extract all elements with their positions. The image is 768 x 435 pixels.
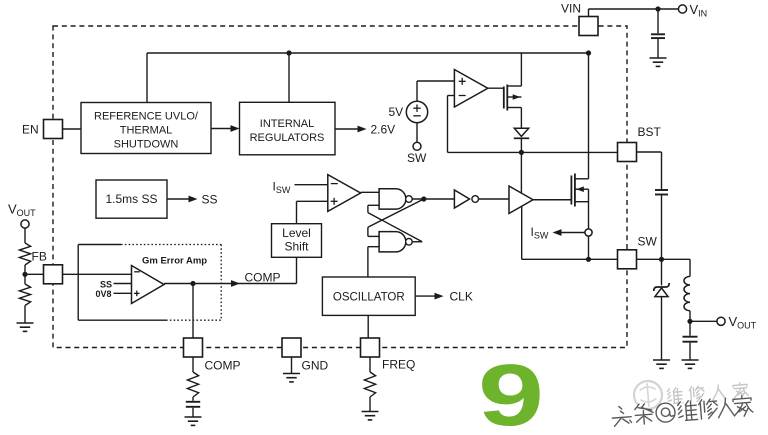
wire EN to reference block xyxy=(63,128,82,130)
block INTERNAL REGULATORS xyxy=(240,102,336,155)
terminal current sense tap circle xyxy=(585,229,592,236)
wire SW pad to output stage xyxy=(637,258,691,260)
gate U4 NAND latch bottom xyxy=(379,232,406,252)
node VIN rail junction xyxy=(586,50,591,55)
wire latch output to inverter xyxy=(412,198,454,200)
node SW diode junction xyxy=(659,257,664,262)
terminal SW sense circle xyxy=(413,142,421,150)
capacitor C1 input xyxy=(651,33,665,35)
wire driver return to SW rail xyxy=(521,206,523,259)
wire 5V to op-amp noninverting input xyxy=(416,81,418,101)
svg-text:COMP: COMP xyxy=(205,358,241,372)
op-amp U7 Gm error amplifier xyxy=(132,266,165,304)
svg-text:SW: SW xyxy=(638,234,658,248)
wire inductor to VOUT node xyxy=(689,311,691,322)
wire bootstrap cap to SW node xyxy=(661,196,663,260)
wire oscillator clock to latch xyxy=(368,246,379,248)
svg-text:SS: SS xyxy=(202,192,218,206)
wire input cap to ground xyxy=(657,39,659,57)
IC boundary dashed box xyxy=(53,26,627,348)
wire error amp output COMP xyxy=(164,283,297,285)
wire COMP pad to R3 xyxy=(192,357,194,372)
ground GND pad xyxy=(283,373,300,375)
svg-text:5V: 5V xyxy=(389,105,404,119)
node rail-regulators junction xyxy=(286,50,291,55)
terminal VOUT feedback circle xyxy=(21,220,29,228)
svg-text:OSCILLATOR: OSCILLATOR xyxy=(333,291,405,303)
svg-text:Gm Error Amp: Gm Error Amp xyxy=(142,256,207,267)
pin COMP pad xyxy=(184,338,203,357)
wire 5V to SW sense terminal xyxy=(416,123,418,143)
wire ISW to comparator inverting input xyxy=(295,184,328,186)
svg-text:GND: GND xyxy=(302,358,329,372)
svg-text:VIN: VIN xyxy=(561,1,581,15)
svg-text:COMP: COMP xyxy=(245,270,281,284)
ground compensation xyxy=(185,416,202,418)
svg-text:9: 9 xyxy=(478,347,544,435)
diode D2 schottky catch xyxy=(654,283,669,291)
wire VOUT node to output cap xyxy=(689,321,691,335)
wire output cap to ground xyxy=(689,343,691,360)
buffer U6 gate driver xyxy=(509,186,533,214)
svg-text:SHUTDOWN: SHUTDOWN xyxy=(114,138,179,150)
svg-text:2.6V: 2.6V xyxy=(371,122,396,136)
wire BST rail xyxy=(448,151,618,153)
wire SS output arrow xyxy=(167,198,194,200)
svg-text:Level: Level xyxy=(282,226,311,240)
watermark logo xyxy=(633,380,663,410)
wire schottky anode to ground xyxy=(661,297,663,360)
wire GND pad to ground xyxy=(291,357,293,373)
svg-text:SS: SS xyxy=(100,279,112,289)
wire level shift to comparator noninverting input xyxy=(297,200,328,202)
node FB divider junction xyxy=(22,272,27,277)
wire FB to error amp inverting input xyxy=(63,273,132,275)
wire CLK output arrow xyxy=(415,295,440,297)
node VOUT junction xyxy=(687,319,692,324)
wire cross-couple top output to bottom input xyxy=(368,199,424,227)
watermark ghost text xyxy=(667,382,749,404)
resistor R4 frequency set xyxy=(364,372,375,397)
svg-text:FB: FB xyxy=(32,249,47,263)
wire R3 to C2 xyxy=(192,397,194,401)
bubble U4 output xyxy=(406,238,413,245)
wire oscillator to FREQ pad xyxy=(367,315,369,338)
wire C2 to ground xyxy=(192,408,194,417)
Gm error amp block boundary xyxy=(78,245,221,321)
pin SW pad xyxy=(618,250,637,269)
terminal VIN input circle xyxy=(678,5,686,13)
svg-text:Shift: Shift xyxy=(284,240,309,254)
wire R2 to ground xyxy=(24,306,26,323)
wire op-amp feedback from BST rail xyxy=(448,95,455,97)
resistor R1 feedback top xyxy=(19,243,30,265)
wire COMP to pad xyxy=(192,284,194,339)
wire 2.6V output arrow xyxy=(335,128,363,130)
bubble U5 output xyxy=(472,196,479,203)
wire SW to schottky cathode xyxy=(661,259,663,285)
block 1.5ms SS soft start xyxy=(96,180,167,218)
node NMOS source SW junction xyxy=(586,257,591,262)
gate U3 NAND latch top xyxy=(379,189,406,209)
wire VIN pad to VIN terminal xyxy=(588,9,590,17)
wire current sense arrow xyxy=(558,232,585,234)
wire op-amp output to PMOS gate xyxy=(488,87,504,89)
ground output cap xyxy=(682,359,699,361)
capacitor C4 output xyxy=(683,336,698,338)
node COMP junction xyxy=(190,281,195,286)
pin FREQ pad xyxy=(361,338,380,357)
wire SW rail inside xyxy=(522,258,618,260)
wire rail to pass PMOS source xyxy=(520,53,522,86)
svg-text:INTERNAL: INTERNAL xyxy=(260,118,314,130)
capacitor C2 compensation xyxy=(186,401,200,403)
wire VOUT terminal to R1 xyxy=(24,228,26,243)
wire driver output to NMOS gate xyxy=(533,199,571,201)
wire FREQ pad to R4 xyxy=(369,357,371,372)
transistor Q2 power NMOS xyxy=(571,174,588,207)
wire diode to BST rail xyxy=(520,138,522,152)
ground input cap xyxy=(650,57,667,59)
wire BST pad to bootstrap cap xyxy=(637,151,662,153)
wire reference to internal regulators with arrow xyxy=(211,128,237,130)
node VIN cap junction xyxy=(655,6,660,11)
block Level Shift xyxy=(272,224,322,258)
svg-text:FREQ: FREQ xyxy=(382,358,415,372)
source 5V supply xyxy=(406,101,427,122)
ground feedback divider xyxy=(17,322,34,324)
wire inverter to gate driver xyxy=(479,198,510,200)
capacitor C3 bootstrap xyxy=(655,189,668,191)
watermark toutiao text xyxy=(611,395,754,428)
terminal VOUT output circle xyxy=(717,317,725,325)
wire VIN terminal to input cap xyxy=(657,9,659,33)
ground schottky xyxy=(653,359,670,361)
pin EN pad xyxy=(44,120,63,139)
wire level shift to COMP net xyxy=(296,257,298,283)
page number 9 xyxy=(478,347,544,435)
op-amp U1 bootstrap regulator xyxy=(454,70,487,108)
wire cross-couple bottom output to top input xyxy=(412,241,422,243)
ground frequency resistor xyxy=(362,411,379,413)
wire rail to internal regulators xyxy=(288,53,290,102)
wire R1 to FB node xyxy=(24,265,26,284)
svg-text:1.5ms SS: 1.5ms SS xyxy=(105,192,157,206)
pin FB pad xyxy=(44,265,63,284)
resistor R3 compensation xyxy=(187,372,198,397)
block OSCILLATOR xyxy=(322,277,415,315)
wire VIN to NMOS drain xyxy=(588,53,590,179)
svg-text:BST: BST xyxy=(638,125,662,139)
pin BST pad xyxy=(618,143,637,162)
transistor Q1 PMOS pass device xyxy=(504,85,522,111)
node latch output junction xyxy=(421,196,426,201)
wire BST rail to gate driver supply xyxy=(520,152,522,193)
pin VIN pad xyxy=(579,17,598,36)
wire SW to inductor xyxy=(689,259,691,276)
inductor L1 xyxy=(684,276,690,310)
svg-text:REGULATORS: REGULATORS xyxy=(250,132,325,144)
block REFERENCE UVLO/THERMAL SHUTDOWN xyxy=(81,103,211,154)
svg-text:REFERENCE UVLO/: REFERENCE UVLO/ xyxy=(94,110,199,122)
svg-text:CLK: CLK xyxy=(450,289,473,303)
wire R4 to ground xyxy=(369,397,371,411)
comparator U2 current comparator xyxy=(328,175,361,212)
wire VOUT node to terminal xyxy=(690,320,717,322)
wire 0V8 to error amp xyxy=(114,292,132,294)
wire NMOS source to SW rail xyxy=(588,189,590,259)
inverter U5 xyxy=(454,190,469,208)
diode D1 bootstrap xyxy=(514,128,528,136)
bubble U3 output xyxy=(406,196,413,203)
wire VIN rail xyxy=(147,52,589,54)
node diode-BST junction xyxy=(519,150,524,155)
svg-text:0V8: 0V8 xyxy=(96,289,112,299)
wire PMOS drain to diode xyxy=(520,108,522,128)
resistor R2 feedback bottom xyxy=(19,284,30,306)
svg-text:SW: SW xyxy=(407,151,427,165)
wire FB node to FB pad xyxy=(25,273,44,275)
svg-text:EN: EN xyxy=(22,123,39,137)
wire rail to reference block xyxy=(146,53,148,103)
pin GND pad xyxy=(282,338,301,357)
svg-text:THERMAL: THERMAL xyxy=(120,124,173,136)
wire SS to error amp xyxy=(114,283,132,285)
wire comparator output to latch xyxy=(361,191,380,193)
